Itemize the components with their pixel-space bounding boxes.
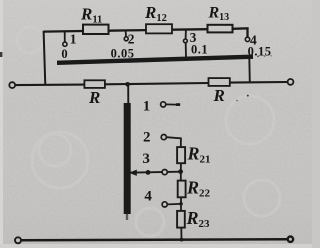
- svg-text:4: 4: [144, 189, 152, 205]
- resistor R22 box: [178, 181, 186, 198]
- wire R22 to R23: [180, 197, 182, 211]
- resistor R13 box: [208, 25, 233, 33]
- paper texture swirls: [17, 27, 280, 236]
- wire plug tap 3 to bus bar: [185, 43, 187, 59]
- selector blade (thick vertical bar): [124, 103, 131, 214]
- contact 2 circle: [161, 135, 166, 140]
- junction dot R21/R22/wiper: [178, 169, 183, 174]
- resistor R11 box: [83, 25, 109, 34]
- wire R23 bottom to bottom rail: [180, 228, 182, 240]
- contact 3 wire (wiper): [127, 172, 181, 173]
- wire middle rail segment B: [105, 83, 209, 84]
- paper edge light strips: [0, 0, 3, 248]
- wire top rail segment B (R11 to R12): [109, 29, 147, 32]
- node terminal circle 2 (top): [124, 37, 128, 41]
- svg-text:0: 0: [61, 47, 67, 61]
- wire stub middle rail to selector blade: [127, 84, 129, 103]
- junction dot bottom rail: [180, 238, 184, 242]
- wire stub tap 2: [125, 30, 127, 37]
- svg-text:2: 2: [128, 32, 135, 47]
- node terminal circle 3 (top): [184, 39, 188, 43]
- wire top rail segment A (left corner to R11): [44, 30, 84, 33]
- terminal circle bottom-right: [288, 237, 293, 242]
- bus bar (thick horizontal): [57, 57, 253, 63]
- resistor R21 box: [177, 147, 185, 163]
- svg-text:2: 2: [143, 130, 151, 146]
- resistor R12 box: [146, 24, 172, 33]
- wire right vertical (bus bar to middle rail): [248, 57, 251, 82]
- resistor R (left) box: [84, 80, 105, 88]
- svg-text:0.1: 0.1: [191, 42, 208, 56]
- svg-text:3: 3: [142, 151, 150, 167]
- wiper arrowhead at blade: [129, 170, 137, 176]
- wire middle rail segment C: [230, 81, 288, 84]
- resistor R23 box: [177, 211, 185, 228]
- wire stub tap 3: [185, 30, 187, 40]
- junction dot on wiper wire: [146, 170, 151, 175]
- wire top rail segment C (R12 to R13): [172, 28, 208, 31]
- contact 1 circle: [161, 102, 166, 107]
- wire middle rail segment A: [15, 84, 84, 87]
- svg-text:0.15: 0.15: [248, 45, 272, 59]
- scan specks: [257, 56, 259, 58]
- contact 4 circle: [162, 202, 167, 207]
- contact 2 wire (to R21 top): [166, 137, 181, 147]
- wire stub tap 1: [64, 32, 66, 43]
- wire bottom rail: [21, 239, 287, 240]
- svg-text:R: R: [88, 88, 100, 107]
- terminal circle middle-left: [9, 82, 15, 88]
- wire left vertical (top rail to middle rail): [44, 31, 46, 85]
- node terminal circle 4 (top): [245, 37, 249, 41]
- contact 4 wire: [167, 203, 181, 206]
- node terminal circle 1 (top): [63, 42, 67, 46]
- terminal circle middle-right: [288, 79, 294, 85]
- resistor R (right) box: [209, 78, 230, 86]
- wire R21 bottom to junction: [180, 163, 182, 180]
- contact 1 wire: [166, 103, 177, 105]
- junction dot contact 4: [179, 202, 183, 206]
- svg-text:1: 1: [70, 31, 77, 46]
- svg-text:1: 1: [143, 98, 151, 114]
- svg-text:0.05: 0.05: [111, 47, 135, 61]
- terminal circle bottom-left: [15, 237, 21, 243]
- junction dot middle rail / blade stub: [125, 82, 130, 87]
- contact 3 circle: [162, 170, 167, 175]
- svg-text:R: R: [213, 86, 225, 105]
- wire top rail segment D (R13 to corner, down to tap 4): [233, 28, 248, 37]
